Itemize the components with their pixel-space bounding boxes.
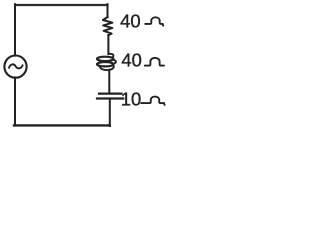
capacitor C 10ohm	[97, 94, 123, 99]
resistor R 40ohm	[103, 17, 113, 35]
source V1	[4, 56, 26, 78]
wire right top (corner to resistor)	[107, 4, 109, 17]
wire inductor to capacitor	[108, 70, 110, 93]
svg-text:40: 40	[120, 11, 140, 32]
svg-text:10: 10	[121, 89, 141, 110]
wire resistor to inductor	[107, 35, 109, 54]
svg-text:40: 40	[121, 50, 141, 71]
wire top	[15, 4, 108, 6]
label R omega	[145, 17, 163, 25]
wire capacitor to bottom	[109, 99, 111, 127]
label C omega	[141, 97, 164, 105]
wire left lower	[14, 77, 16, 125]
wire bottom	[14, 124, 110, 126]
inductor L 40ohm	[97, 54, 116, 70]
wire left upper	[14, 4, 16, 55]
label L omega	[145, 58, 164, 66]
